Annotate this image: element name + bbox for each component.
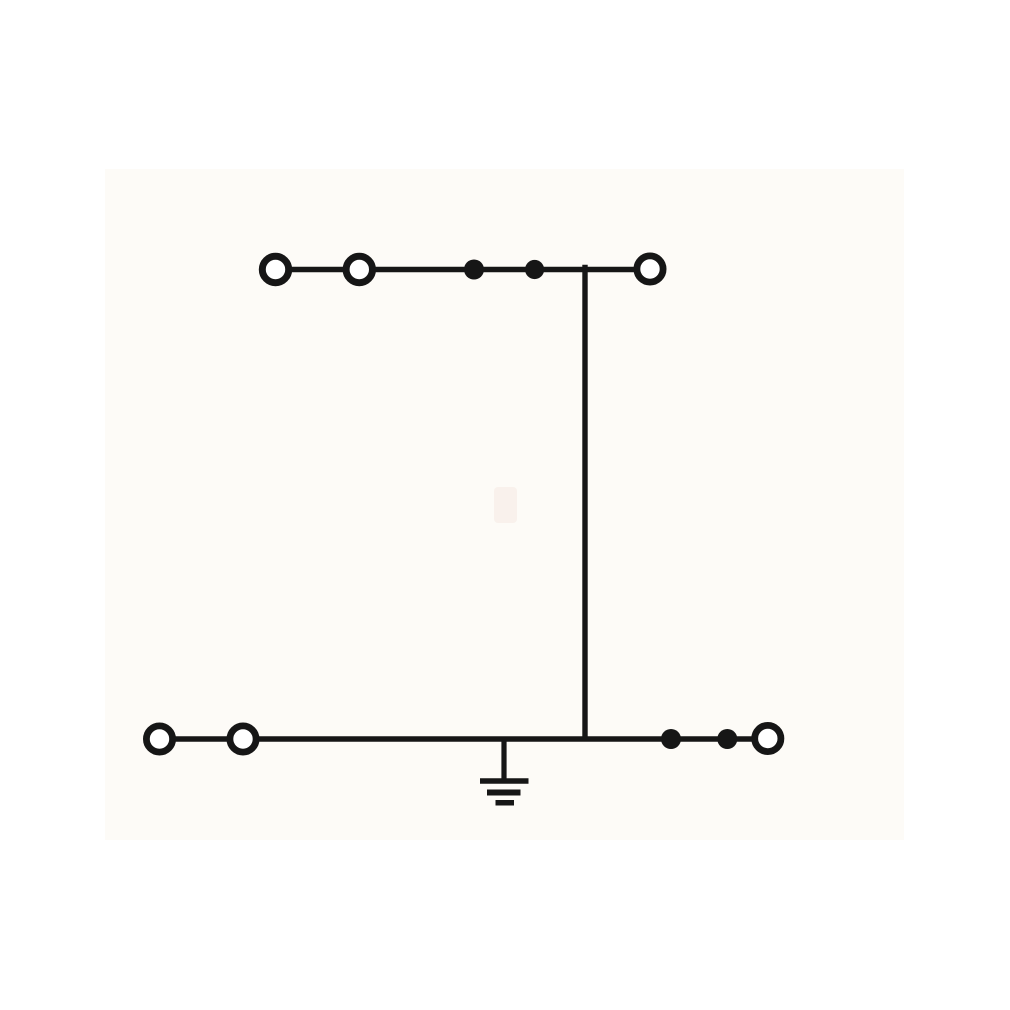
faint watermark smudge bbox=[494, 487, 517, 523]
ground bar 3 bbox=[496, 800, 515, 806]
terminal circle 5 (lower rail second) bbox=[230, 726, 256, 752]
ground stem wire bbox=[501, 739, 506, 781]
ground bar 2 bbox=[487, 790, 521, 796]
terminal circle 3 (upper rail right) bbox=[637, 256, 663, 282]
ground bar 1 bbox=[480, 778, 529, 784]
terminal circle 1 (upper rail far left) bbox=[262, 256, 288, 282]
wire: upper rail bbox=[275, 267, 650, 272]
scanned image area (warm off-white) bbox=[105, 169, 904, 840]
terminal circle 2 (upper rail second) bbox=[346, 256, 372, 282]
wire: vertical link from upper rail to lower rail bbox=[582, 265, 587, 739]
terminal circle 6 (lower rail right) bbox=[755, 725, 781, 751]
junction dot (upper rail, right) bbox=[525, 260, 544, 279]
junction dot (upper rail, left) bbox=[464, 260, 484, 280]
wire: lower rail bbox=[159, 736, 768, 741]
junction dot (lower rail, right) bbox=[717, 729, 737, 749]
junction dot (lower rail, left) bbox=[661, 729, 681, 749]
terminal circle 4 (lower rail far left) bbox=[146, 726, 172, 752]
